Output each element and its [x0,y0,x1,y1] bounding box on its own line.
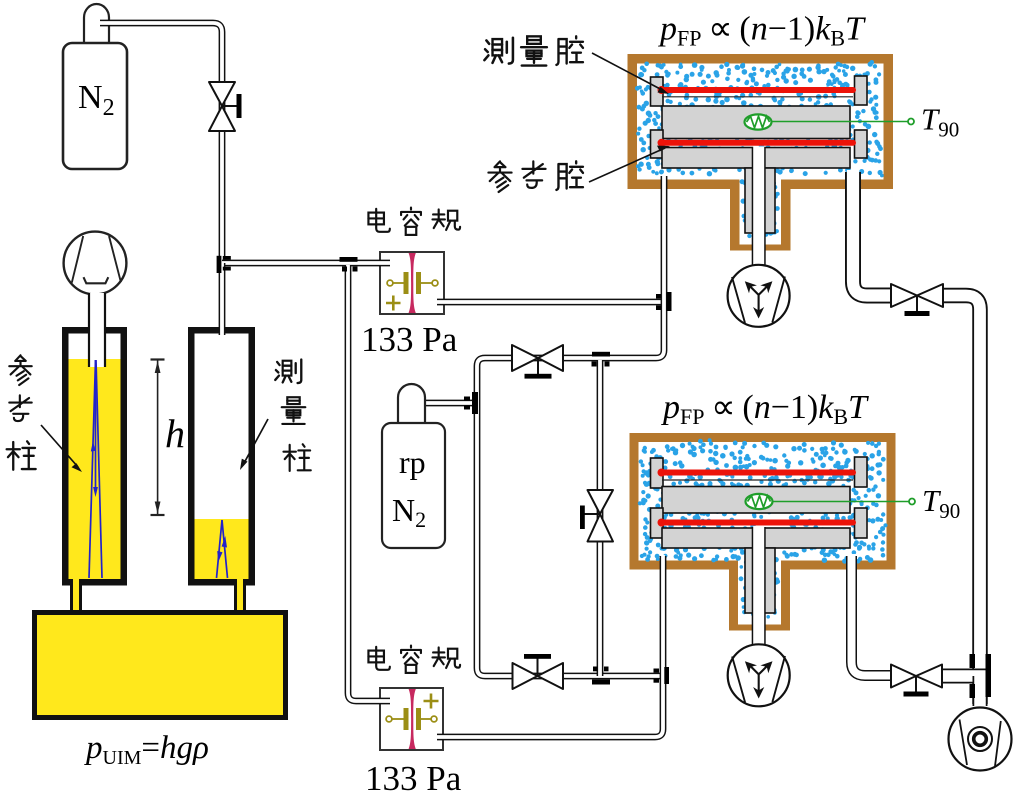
pipe: J2 down then right to gauge2 [348,265,390,701]
backing scroll pump (bottom right) [949,708,1012,771]
FP2 right port pipe to valve [852,556,894,676]
pipe: N2 bottle to valve V1 to junction J1 [100,23,222,258]
FP2 valve to backing line junction [940,669,986,684]
FP1 insulation dots [635,60,884,238]
rotary pump above reference column [64,232,127,295]
reservoir connecting stem right [234,579,246,616]
gauge 2 capacitor symbol [386,694,438,731]
junction J7 tick [664,667,669,684]
FP1 shell (brown vacuum enclosure) [628,54,894,251]
N2 gas bottle [63,4,127,169]
pipe: gauge1 out right to riser J3 [437,299,661,306]
pipe: J1 to gauge1 [222,260,390,267]
gauge 2 diaphragm (magenta) [409,689,416,749]
turbo pump under FP1 [728,265,790,327]
FP2 shell (brown vacuum enclosure) [630,433,896,631]
FP2 pump stem (grey) [745,548,775,613]
measurement column (thick walls) [188,327,255,586]
valve V4 (bottom horizontal) [513,654,564,689]
junction J1 tick [217,256,222,273]
FP1 pump stem (grey) [745,168,775,233]
label: 电容规 bottom gauge [368,646,460,673]
FP2 lower slab [662,528,850,548]
FP2 pump bore pipe through stem to pump [752,527,766,647]
pipe: J4 left through top valve, down left side, through bottom valve to J7 [477,358,662,676]
FP1 top-left mirror tab [651,77,664,106]
svg-text:133 Pa: 133 Pa [361,320,458,359]
FP2 insulation dots [638,438,888,618]
FP2 lower-right mirror tab [855,508,868,538]
FP2 top-right mirror tab [855,457,868,487]
FP2 middle spacer slab [662,487,850,514]
svg-text:133 Pa: 133 Pa [365,759,462,798]
oil reservoir [32,610,288,720]
FP1 reference cavity laser (red line) [658,139,854,147]
svg-text:h: h [165,411,185,456]
pipe: central line J4 to J6 [597,360,604,676]
FP1 pump bore pipe through stem to pump [752,148,766,268]
label: 测量腔 (measurement cavity) [484,36,669,94]
h dimension line [151,360,165,516]
capacitance gauge 1 box [380,252,444,314]
reference column (thick walls) [62,327,127,586]
pipe: FP1 riser down, corner left to J4 [604,176,664,358]
rp N2 bottle [382,384,445,548]
label: 电容规 top gauge [368,208,460,235]
laser beam in reference column [89,360,102,578]
valve V5 (FP1 right) [891,284,943,316]
laser beam in measurement column [217,520,228,578]
svg-text:rp: rp [399,444,426,480]
FP2 measurement cavity laser (red line) [658,469,854,481]
gauge 1 capacitor symbol [386,272,438,311]
junction J4 tick [592,352,610,357]
FP1 thermometer T90 [745,114,915,129]
FP2 thermometer T90 [746,494,916,509]
junction J3 tick [667,292,672,311]
FP1 top-right mirror tab [855,76,868,105]
FP1 middle spacer slab [662,106,850,139]
FP2 reference cavity laser (red line) [658,519,854,527]
FP1 valve to backing line (wide, down right side) [941,296,980,705]
pipe: J1 down into measurement column [219,263,226,335]
FP1 lower slab [662,148,850,169]
label: 参考柱 (reference column, vertical) with arrow [7,355,82,472]
FP1 lower-right mirror tab [855,130,868,158]
junction J6 tick [592,680,610,685]
capacitance gauge 2 box [380,688,443,750]
junction J2 tick [340,257,358,262]
label: 测量柱 (measurement column, vertical) with arrow [240,359,311,470]
backing line junction ticks (bottom right) [970,654,976,668]
junction J5 tick [472,392,478,414]
turbo pump under FP2 [728,644,790,706]
gauge 1 diaphragm (magenta) [409,253,416,313]
FP1 measurement cavity laser (red line) [658,86,854,97]
FP1 right port pipe to valve [853,172,893,296]
reservoir connecting stem left [70,579,82,616]
pipe: rp N2 bottle to J5 [420,400,474,407]
pipe: FP2 left line down through J7 to gauge2 [437,556,663,737]
valve V6 (FP2 right) [891,665,942,697]
pump stem into reference column [89,293,105,367]
FP2 top-left mirror tab [651,458,664,488]
FP2 lower-left mirror tab [651,508,664,538]
label: 参考腔 (reference cavity) [488,146,670,192]
valve V3 (central vertical line) [580,490,613,542]
FP1 lower-left mirror tab [651,130,664,158]
valve V1 (N2 line, vertical) [209,82,242,131]
valve V2 (top horizontal) [512,345,563,379]
